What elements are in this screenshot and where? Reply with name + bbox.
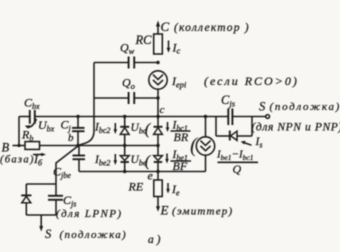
capacitor Cjbe wire bottom xyxy=(78,159,80,171)
current Ie arrow down xyxy=(167,183,169,191)
diagonal wire b to LPNP substrate network xyxy=(56,146,78,184)
svg-text:S: S xyxy=(45,227,52,241)
svg-text:Q: Q xyxy=(233,162,242,176)
resistor RC xyxy=(154,34,163,54)
svg-text:Is: Is xyxy=(255,136,263,150)
svg-text:Ubx: Ubx xyxy=(38,118,55,134)
svg-text:E: E xyxy=(160,203,169,218)
current Is arrow xyxy=(244,143,252,146)
node: Qo junction dot xyxy=(156,96,159,99)
capacitor Qo wire right xyxy=(134,97,158,99)
svg-text:Ibc2: Ibc2 xyxy=(94,122,110,136)
svg-text:Ibe1−Ibc1: Ibe1−Ibc1 xyxy=(216,149,253,163)
svg-text:Cj: Cj xyxy=(61,118,72,134)
substrate box right vertical xyxy=(251,117,253,137)
svg-text:Ie: Ie xyxy=(171,182,180,198)
svg-text:B: B xyxy=(2,141,10,155)
svg-text:Qо: Qо xyxy=(122,76,135,92)
node: Qw junction dot xyxy=(156,61,159,64)
LPNP network top rail xyxy=(26,183,56,185)
base line b xyxy=(78,145,160,147)
svg-text:b: b xyxy=(68,132,74,144)
current label Ic arrow xyxy=(168,41,170,50)
svg-text:Ic: Ic xyxy=(172,41,181,56)
diode Ibc2: wire, bar, triangle (pointing up) xyxy=(124,117,126,128)
substrate diode branch bottom left xyxy=(216,135,230,137)
svg-text:C: C xyxy=(161,19,170,34)
controlled source (Ibe1-Ibc1)/Q circle xyxy=(205,117,207,137)
svg-text:(: ( xyxy=(145,121,152,138)
svg-text:(: ( xyxy=(145,153,152,170)
collector line left corner riser to B wire xyxy=(18,117,20,146)
capacitor Cjbc plates xyxy=(72,127,85,129)
capacitor Cjbe plates xyxy=(73,155,86,157)
junction dot Cjbc xyxy=(76,115,79,118)
capacitor Qw wire left xyxy=(94,62,129,64)
diode Ibe2: triangle down, bar xyxy=(124,146,126,156)
current Ib right arrow xyxy=(33,154,43,156)
junction dot bc-diode column xyxy=(123,115,126,118)
capacitor Qo wire left xyxy=(94,97,129,99)
collector line to S terminal xyxy=(232,116,265,118)
svg-text:RE: RE xyxy=(128,180,144,194)
wire C to RC xyxy=(157,25,159,34)
current source Iepi circle xyxy=(149,71,167,89)
current Ibc1/BR arrow down xyxy=(167,122,169,129)
svg-text:(подложка): (подложка) xyxy=(270,101,340,113)
svg-text:Cjs: Cjs xyxy=(221,93,236,109)
svg-text:а ): а ) xyxy=(148,234,161,246)
emitter line xyxy=(79,171,206,173)
svg-text:BR: BR xyxy=(174,130,189,144)
svg-text:(для NPN и PNP): (для NPN и PNP) xyxy=(252,122,340,134)
junction dot transistor source top xyxy=(204,115,207,118)
capacitor Cjbe wire top xyxy=(78,146,80,156)
svg-text:Rb: Rb xyxy=(21,128,33,144)
wire Iepi to node c xyxy=(157,89,159,127)
svg-text:Cjs: Cjs xyxy=(63,193,76,209)
left bus wire (base side of Qw/Qo) xyxy=(93,63,95,118)
collector line segment xyxy=(19,116,30,118)
node c dot xyxy=(156,115,159,118)
svg-text:(: ( xyxy=(190,133,199,157)
svg-text:S: S xyxy=(259,100,266,114)
svg-text:RC: RC xyxy=(135,33,153,47)
svg-text:(база): (база) xyxy=(0,155,35,166)
wire Rb to node b xyxy=(40,145,79,147)
junction dots on base line xyxy=(123,144,126,147)
substrate S stub with arrow xyxy=(40,215,42,228)
terminal S circle xyxy=(266,115,270,119)
voltage Ubx curved arrow xyxy=(28,119,37,127)
current Ibe1/BF arrow down xyxy=(166,154,168,161)
svg-text:(эмиттер): (эмиттер) xyxy=(172,206,233,218)
capacitor Cjs plates (in collector line) xyxy=(227,109,229,126)
svg-text:Cbx: Cbx xyxy=(24,96,40,112)
junction dot Cbx riser xyxy=(17,144,20,147)
capacitor Qw wire right xyxy=(134,62,158,64)
substrate diode: bar and triangle pointing left xyxy=(229,131,231,141)
svg-text:e: e xyxy=(148,169,154,183)
diode Ibc1 on main line: bar, triangle up xyxy=(154,126,163,128)
substrate box left vertical xyxy=(215,117,217,137)
diode Ibe1 on main line: triangle down, bar xyxy=(154,156,163,161)
wire RE to E with arrow xyxy=(157,197,159,209)
wire B to Rb xyxy=(13,145,26,147)
collector terminal C arrow xyxy=(156,21,160,27)
svg-text:Iepi: Iepi xyxy=(171,74,187,90)
resistor Rb xyxy=(25,142,40,150)
svg-text:Ibe2: Ibe2 xyxy=(94,154,110,168)
junction dots on emitter line xyxy=(123,170,126,173)
svg-text:(коллектор ): (коллектор ) xyxy=(174,22,250,34)
elbow wire bus to node b xyxy=(78,117,94,146)
svg-text:(подложка): (подложка) xyxy=(60,229,128,241)
LPNP capacitor Cjs branch xyxy=(55,184,57,196)
resistor RE xyxy=(154,180,162,197)
collector line main xyxy=(35,116,229,118)
svg-text:c: c xyxy=(160,104,165,116)
svg-text:Qw: Qw xyxy=(120,41,135,57)
LPNP bottom rail xyxy=(26,214,56,216)
capacitor Qo plates xyxy=(128,92,130,104)
svg-text:(если RCO>0): (если RCO>0) xyxy=(204,74,299,88)
capacitor Cjbc wire top xyxy=(77,117,79,128)
wire e to RE xyxy=(157,172,159,181)
node b dot xyxy=(76,144,80,148)
capacitor Cjbc wire bottom xyxy=(77,131,79,145)
LPNP diode branch xyxy=(25,184,27,195)
capacitor Cbx plates xyxy=(29,110,31,124)
svg-text:(для LPNP): (для LPNP) xyxy=(56,208,122,220)
capacitor Qw plates xyxy=(128,57,130,69)
